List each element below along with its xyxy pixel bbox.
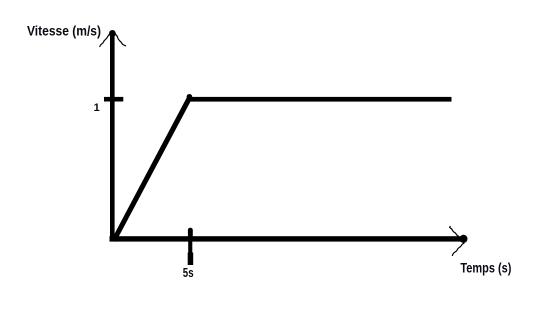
y-axis arrowhead: [100, 34, 126, 47]
svg-text:Vitesse (m/s): Vitesse (m/s): [27, 24, 101, 39]
svg-text:5s: 5s: [183, 265, 194, 280]
x-axis: [110, 235, 468, 243]
svg-text:1: 1: [94, 102, 100, 114]
velocity curve rising segment: [112, 94, 193, 242]
tick 1 on y-axis: [104, 97, 123, 102]
velocity curve plateau segment: [188, 97, 452, 102]
x-axis arrowhead: [450, 227, 464, 256]
tick 5s on x-axis: [188, 228, 194, 265]
y-axis: [109, 30, 116, 241]
svg-text:Temps (s): Temps (s): [460, 261, 511, 276]
